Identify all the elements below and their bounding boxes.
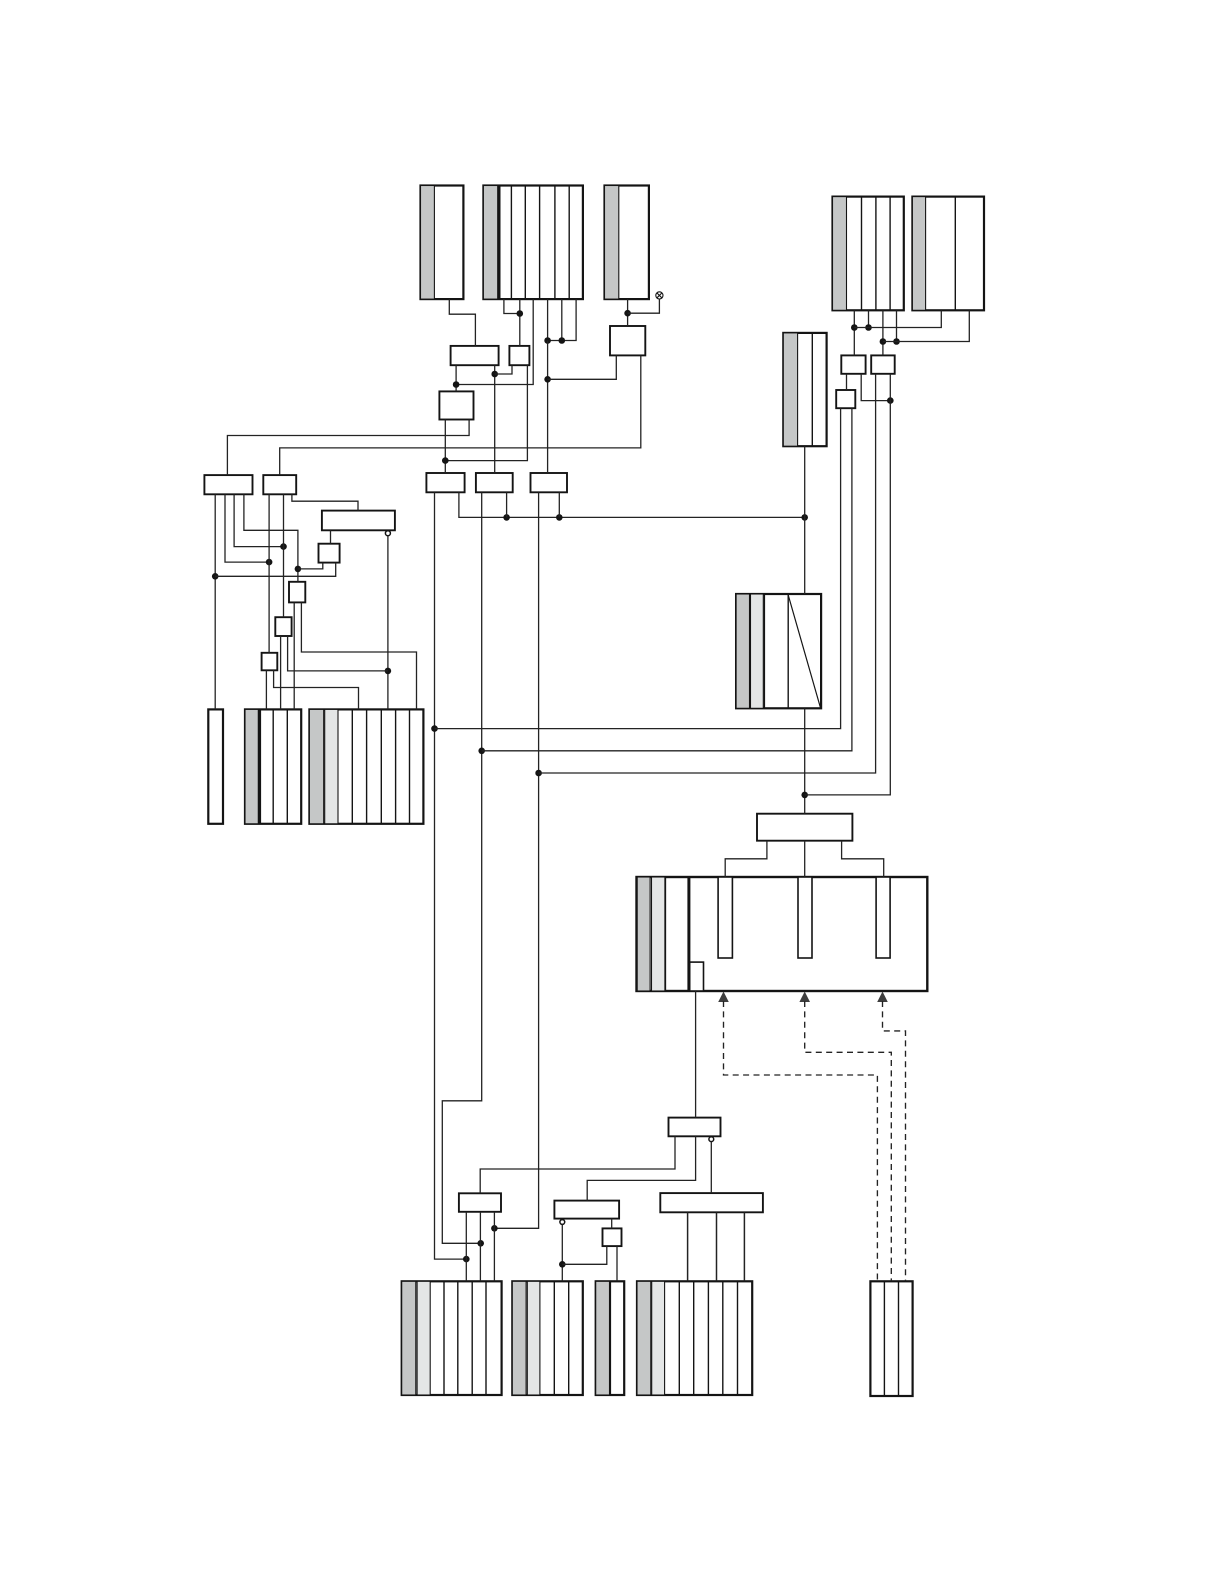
- junction A pin2 / B pin1: [491, 371, 498, 378]
- wire M1 pin2 to C1: [479, 1212, 481, 1282]
- junction bus/MB wire: [801, 514, 808, 521]
- slot 2 in BB: [798, 877, 812, 958]
- junction T2 pin4: [544, 337, 551, 344]
- wire L1 pin1 to NB: [214, 494, 216, 709]
- wire TB3 pin1 long run: [435, 408, 841, 728]
- ground symbol (circle-X): [656, 292, 663, 299]
- wire L2 pin3 to L3: [292, 494, 358, 510]
- wire M2 pin1 to M1: [480, 1136, 675, 1193]
- connector MB (mid-right upper block): [783, 333, 826, 446]
- junction T4p4: [893, 338, 900, 345]
- wire DGB pin to WB: [804, 708, 806, 813]
- wire L3 pin to L4: [330, 530, 332, 543]
- shield circle under L3: [385, 531, 390, 536]
- junction T4p2: [865, 324, 872, 331]
- junction M3 shield / M5: [559, 1261, 566, 1268]
- box L1: [204, 475, 252, 494]
- wire T5 pin2 bend: [883, 310, 969, 341]
- connector C3: [596, 1281, 625, 1395]
- box L6: [275, 617, 291, 636]
- junction L5 feed / L4 left: [295, 566, 302, 573]
- wire R3 pin1 long run: [494, 492, 538, 1228]
- connector BB (large bottom-right block): [637, 877, 928, 991]
- wire T4 pin4: [896, 310, 898, 341]
- wire T4 pin2: [868, 310, 870, 327]
- wire T2 pin6 bend: [548, 299, 577, 340]
- box TB1: [841, 355, 865, 373]
- wire L2 pin2 to L6: [283, 494, 285, 617]
- wire L5 pin1 to B1: [293, 602, 295, 709]
- connector B1: [245, 709, 301, 823]
- shield circle under M3: [560, 1220, 565, 1225]
- wire TB1 pin2: [861, 374, 890, 401]
- wire M1 pin1 to C1: [465, 1212, 467, 1282]
- wire M4 leg3 to C4: [743, 1212, 745, 1281]
- wire T2 pin5: [561, 299, 563, 340]
- wire L3 shield drop to B2: [387, 536, 389, 710]
- wire M2 shield to M4: [710, 1142, 712, 1194]
- connector T5 (right deck block 2): [912, 197, 984, 311]
- junction DGB/TB2 line: [801, 792, 808, 799]
- connector C1: [402, 1281, 502, 1395]
- box M3: [554, 1201, 619, 1219]
- box TB3: [836, 390, 855, 408]
- diagonal strap inside DGB: [788, 595, 820, 708]
- connector T2 (camera block main): [483, 186, 583, 300]
- box WB (wide box above BB): [757, 814, 852, 841]
- connector C2: [512, 1281, 583, 1395]
- box R3: [531, 473, 568, 492]
- wire L6 pin2: [288, 636, 388, 671]
- wire MB pin to DGB: [804, 446, 806, 594]
- slot 1 in BB: [718, 877, 732, 958]
- wire L1 pin4 to L5: [244, 494, 298, 582]
- wire BB tab to M2: [695, 991, 697, 1118]
- wire T1 pin to box A: [449, 299, 475, 346]
- box M2: [669, 1118, 721, 1137]
- dashed wire C5 col1 to BB slot1: [724, 1001, 878, 1281]
- box L7: [262, 653, 278, 671]
- connector T3 (camera block right): [605, 186, 649, 300]
- junction T4p1: [851, 324, 858, 331]
- arrowhead into BB slot2: [799, 992, 810, 1003]
- wire WB left stub: [725, 841, 767, 877]
- junction M1 mid pin: [477, 1240, 484, 1247]
- wire R1 pin2 horizontal bus: [459, 492, 805, 517]
- wire L2 pin1 to L7: [268, 494, 270, 653]
- wire M3 shield to C2: [561, 1224, 563, 1281]
- wire spur to L4 left pin: [298, 563, 323, 569]
- junction R1p1 / TB3 line: [431, 725, 438, 732]
- wire TB2 pin2 long run: [805, 374, 891, 795]
- wire ground stem: [628, 299, 660, 313]
- wire spur to box D left pin: [548, 355, 617, 379]
- box L2: [263, 475, 296, 494]
- wire M3 pin to M5: [611, 1219, 613, 1229]
- junction T2 pins 1-2: [517, 310, 524, 317]
- wire L5 pin2 to B2: [301, 602, 416, 709]
- wire T4 pin1 to TB1: [853, 310, 855, 355]
- junction T4p3: [880, 338, 887, 345]
- junction T3/ground: [624, 310, 631, 317]
- box M1: [459, 1193, 501, 1212]
- junction E pin1 / B pin2: [442, 457, 449, 464]
- box TB2: [871, 355, 895, 373]
- wire TB2 pin1 long run: [539, 374, 876, 773]
- box L3 (wide): [322, 511, 395, 531]
- box R1: [426, 473, 464, 492]
- junction bus/boxD spur: [544, 376, 551, 383]
- wire M4 leg1 to C4: [687, 1212, 689, 1281]
- wire T2 pin2 to box B: [519, 299, 521, 346]
- junction shield / L6p2: [385, 668, 392, 675]
- wire WB right stub: [842, 841, 884, 877]
- wire box A pin2 to R2: [494, 365, 496, 473]
- box M5: [603, 1228, 622, 1246]
- small tab in BB bottom-left: [690, 962, 704, 991]
- wire T5 pin1 bend: [854, 310, 941, 327]
- connector NB (narrow plain block): [208, 709, 223, 823]
- box L4: [319, 544, 340, 563]
- box E (below box A): [439, 391, 473, 419]
- wire bus drop to R3: [547, 341, 549, 474]
- wire TB3 pin2 long run: [482, 408, 852, 751]
- wire box E pin2 to L1: [227, 420, 469, 476]
- junction A-E / T2pin3: [453, 381, 460, 388]
- connector C4: [637, 1281, 752, 1395]
- box B (relay under T2): [509, 346, 529, 365]
- wire M4 leg2 to C4: [716, 1212, 718, 1281]
- wire L7 pin2 to B2: [274, 670, 359, 709]
- wire box D right pin to L2: [280, 355, 641, 475]
- box A (relay under T1/T2): [451, 346, 499, 365]
- wire M2 pin2 to M3: [587, 1136, 695, 1200]
- wire spur to M5 left pin: [562, 1246, 607, 1264]
- wire L4 right pin run: [215, 563, 336, 577]
- wire T2 pin1 stub: [504, 299, 520, 313]
- wire box A pin1 to box E: [455, 365, 457, 391]
- junction M1 right pin: [491, 1225, 498, 1232]
- wire L7 pin1 to B1: [265, 670, 267, 709]
- box M4 (wide): [660, 1193, 763, 1212]
- slot 3 in BB: [876, 877, 890, 958]
- wire box B pin2 long bend: [445, 365, 527, 460]
- junction T2 pin5: [559, 337, 566, 344]
- wire L1 pin2: [225, 494, 269, 562]
- dashed wire C5 col3 to BB slot3: [883, 1001, 906, 1281]
- shield circle under M2: [709, 1137, 714, 1142]
- junction R3p2: [556, 514, 563, 521]
- dashed wire C5 col2 to BB slot2: [805, 1001, 892, 1281]
- arrowhead into BB slot3: [877, 992, 888, 1003]
- wire WB mid stub: [804, 841, 806, 877]
- wire box E pin1 to R1: [444, 420, 446, 474]
- junction R3p1 / TB2 line: [535, 770, 542, 777]
- junction TB1p2/TB2p2: [887, 397, 894, 404]
- wire R2 pin1 long run: [442, 492, 481, 1243]
- connector B2: [309, 709, 423, 823]
- wire box B pin1 bend: [495, 365, 512, 374]
- junction L1p3/L2p2: [280, 543, 287, 550]
- box D (under T3): [610, 326, 645, 355]
- wire M1 pin3 to C1: [493, 1212, 495, 1282]
- connector DGB (block with diagonal): [736, 594, 821, 708]
- wire T2 pin4: [547, 299, 549, 340]
- junction L1 pin1 / L4: [212, 573, 219, 580]
- arrowhead into BB slot1: [718, 992, 729, 1003]
- junction M1 left pin: [463, 1256, 470, 1263]
- wire R2 pin2: [506, 492, 508, 517]
- junction L1p2/L2p1: [266, 559, 273, 566]
- junction R2p2: [503, 514, 510, 521]
- wire R3 pin2: [558, 492, 560, 517]
- box L5: [289, 582, 305, 603]
- wire TB1 pin1 to TB3: [846, 374, 848, 390]
- box R2: [476, 473, 513, 492]
- wire L1 pin3: [234, 494, 283, 546]
- wire M5 right pin to C3: [616, 1246, 618, 1281]
- wire T3 pin to box D: [627, 299, 629, 326]
- wire R1 pin1 long run: [435, 492, 467, 1259]
- connector T1 (camera block left): [421, 186, 464, 300]
- connector C5 (dashed target): [870, 1281, 912, 1396]
- wire T2 pin3 long drop: [456, 299, 533, 384]
- wire T4 pin3 to TB2: [882, 310, 884, 355]
- connector T4 (right deck block): [833, 197, 904, 311]
- junction R2p1 / TB3 line2: [478, 748, 485, 755]
- wire L6 pin1 to B1: [280, 636, 282, 709]
